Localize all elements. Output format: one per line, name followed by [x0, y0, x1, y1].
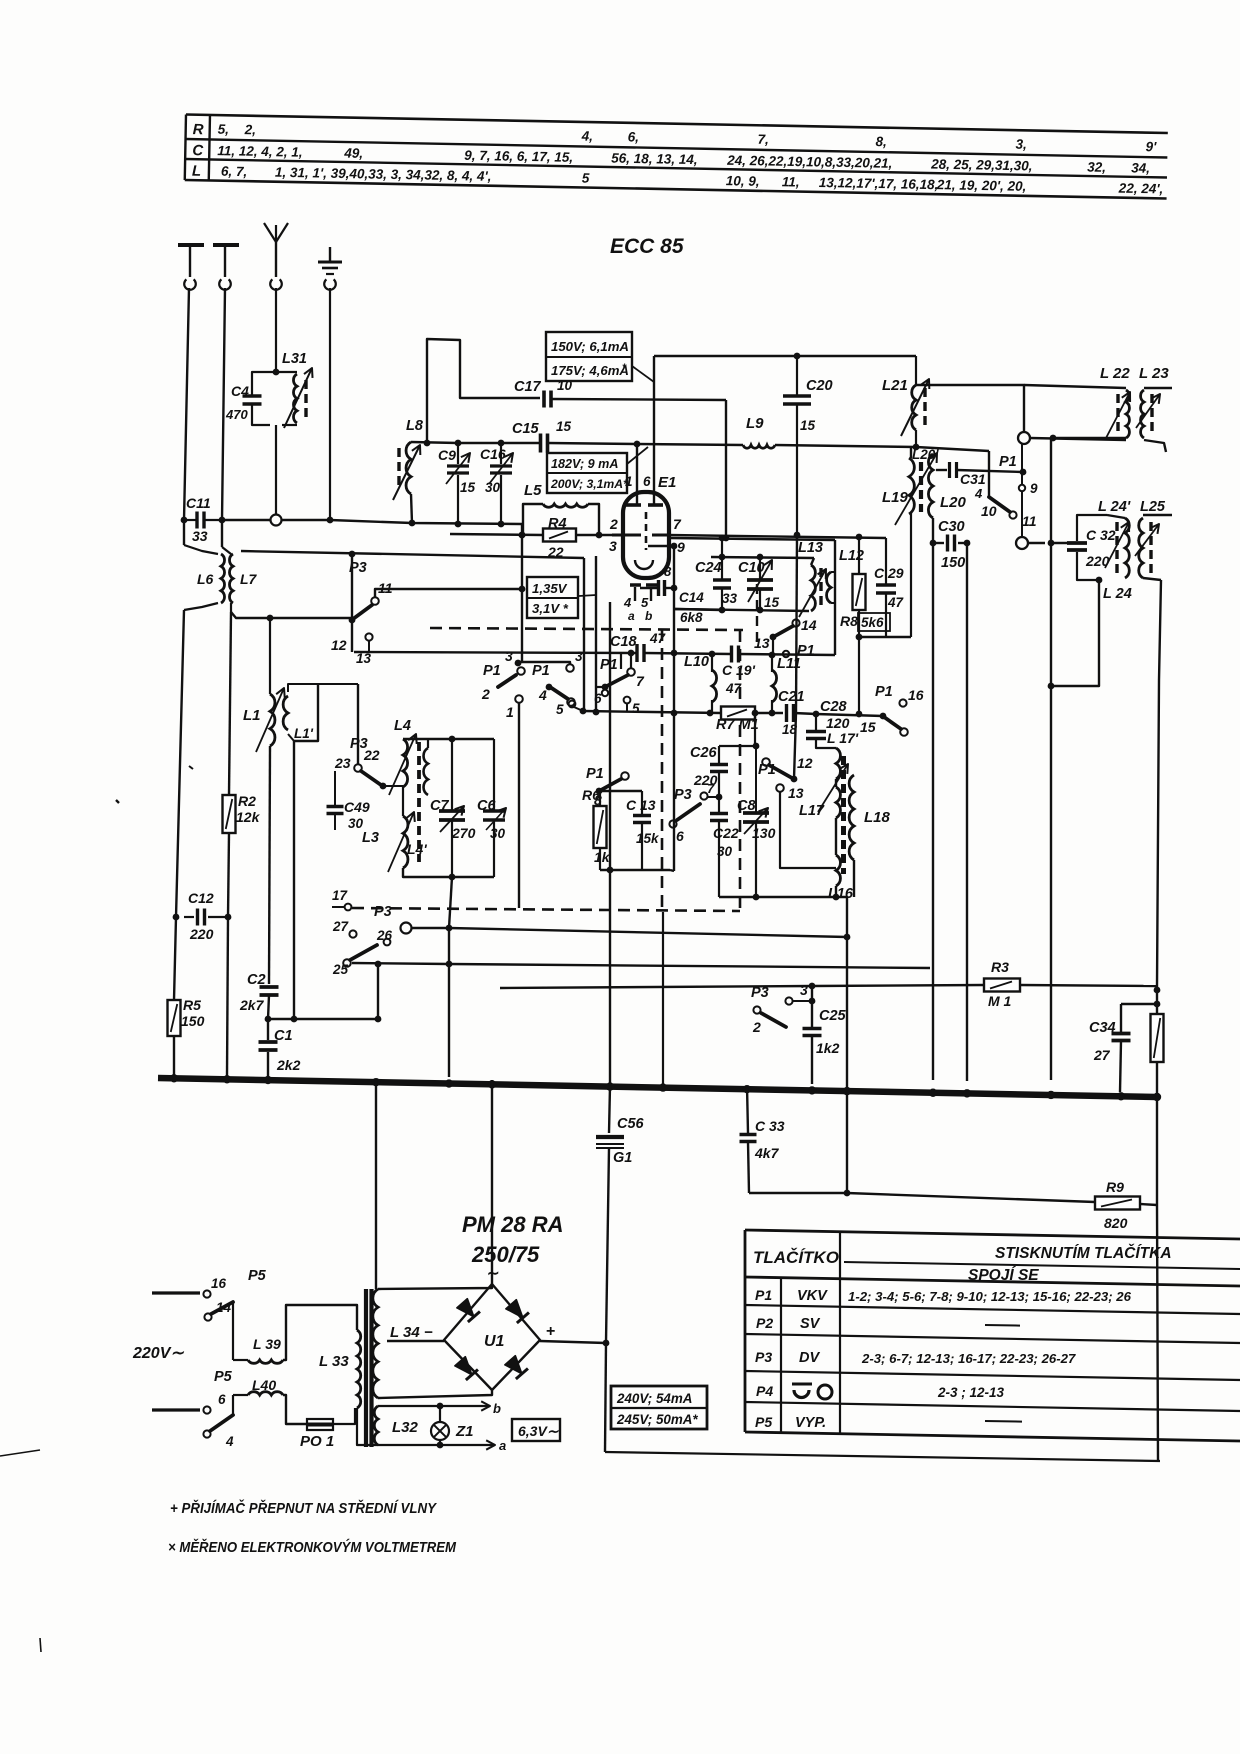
svg-text:C25: C25 — [819, 1008, 847, 1024]
svg-text:SPOJÍ SE: SPOJÍ SE — [968, 1267, 1039, 1284]
svg-text:C: C — [192, 142, 204, 159]
svg-text:M 1: M 1 — [988, 993, 1012, 1009]
svg-text:a: a — [628, 609, 635, 623]
svg-text:P5: P5 — [755, 1414, 772, 1430]
wire main top rail — [222, 519, 270, 521]
svg-text:C20: C20 — [806, 378, 833, 394]
svg-text:C8: C8 — [737, 798, 756, 814]
transformer L24'/L25 — [1125, 518, 1129, 578]
tube E1 ECC85 envelope — [623, 492, 669, 578]
svg-text:8,: 8, — [875, 134, 887, 149]
svg-text:14: 14 — [801, 617, 817, 633]
wire x=378 riser — [377, 964, 379, 1019]
wire cathode line y=609 to C24 line — [674, 609, 722, 610]
inductor L8 (tuned) — [411, 494, 412, 523]
wire R8/C29 bottom — [859, 636, 911, 638]
wire y=447 line to P1 corner — [916, 447, 989, 451]
bridge diodes — [457, 1299, 474, 1317]
capacitor C11 — [184, 519, 196, 521]
svg-text:P3: P3 — [751, 985, 769, 1001]
svg-text:L19: L19 — [882, 489, 909, 506]
capacitor C17 10 and link — [427, 339, 540, 443]
trimmer C16 30 — [500, 443, 502, 464]
wire L34 bottom to bridge — [378, 1390, 492, 1398]
svg-text:C 33: C 33 — [755, 1118, 785, 1134]
svg-text:L9: L9 — [746, 415, 764, 432]
svg-text:R3: R3 — [991, 959, 1009, 975]
capacitor C2 2k7 — [269, 746, 270, 984]
capacitor C49 30 — [334, 771, 336, 806]
svg-text:L4: L4 — [394, 718, 411, 734]
svg-text:5,: 5, — [218, 122, 230, 137]
svg-text:VYP.: VYP. — [795, 1415, 826, 1431]
wire bus to bridge apex — [491, 1080, 493, 1284]
capacitor C22 30 — [718, 797, 720, 813]
svg-text:*: * — [622, 362, 627, 374]
wire C20 down long — [796, 404, 798, 535]
wire L22 bottom — [1053, 437, 1126, 439]
resistor R2 12k — [223, 795, 236, 833]
wire C30 legs to bus — [932, 543, 934, 1080]
svg-text:P1: P1 — [532, 663, 550, 679]
wire x=610 long riser — [609, 602, 611, 1086]
svg-text:7: 7 — [636, 673, 645, 689]
resistor R10 (right edge) — [1156, 986, 1158, 1014]
svg-text:C30: C30 — [938, 519, 965, 535]
svg-text:C18: C18 — [610, 634, 638, 650]
wire bus to L34 top — [375, 1080, 377, 1289]
svg-text:2: 2 — [752, 1019, 761, 1035]
wire grid pin 2 into tube — [612, 534, 641, 537]
svg-text:U1: U1 — [484, 1333, 505, 1350]
wire antenna to L31 — [275, 288, 277, 372]
svg-text:PO 1: PO 1 — [300, 1433, 334, 1450]
svg-text:7,: 7, — [757, 132, 769, 147]
svg-text:15k: 15k — [636, 831, 660, 846]
svg-text:L 24: L 24 — [1103, 586, 1132, 602]
svg-text:PM 28 RA: PM 28 RA — [462, 1212, 563, 1237]
wire x=450 to bus — [449, 877, 452, 928]
svg-text:C15: C15 — [512, 421, 540, 437]
pin 9 wire — [648, 545, 674, 547]
svg-text:14: 14 — [216, 1300, 232, 1315]
dashed box vertical x=740 — [739, 630, 742, 910]
svg-text:7: 7 — [707, 781, 715, 796]
capacitor C31 (series) — [936, 469, 947, 471]
dashed stub near C14 — [756, 584, 758, 648]
svg-text:150: 150 — [181, 1013, 205, 1029]
svg-text:P5: P5 — [248, 1268, 267, 1284]
svg-text:+ PŘIJÍMAČ PŘEPNUT NA STŘEDNÍ: + PŘIJÍMAČ PŘEPNUT NA STŘEDNÍ VLNY — [170, 1499, 438, 1517]
dashed box top y=629 — [430, 628, 743, 630]
component value cross-reference table (R/C/L rows) — [185, 114, 1168, 198]
capacitor C18 47 (series) — [635, 644, 638, 662]
svg-text:13: 13 — [788, 785, 804, 801]
svg-text:P3: P3 — [674, 787, 692, 803]
svg-text:1: 1 — [506, 704, 514, 720]
wire top link y=385 — [916, 385, 1024, 432]
wire L24 tap — [1096, 577, 1103, 584]
svg-text:P1: P1 — [755, 1287, 772, 1303]
svg-text:1k2: 1k2 — [816, 1040, 840, 1056]
inductor L21 (tuned) — [915, 356, 917, 385]
connector circle node — [401, 923, 412, 934]
svg-text:L 23: L 23 — [1139, 365, 1169, 382]
junction y=1019 wire — [268, 995, 269, 1019]
svg-text:R9: R9 — [1106, 1179, 1124, 1195]
svg-text:C2: C2 — [247, 972, 266, 988]
svg-text:11, 12, 4, 2, 1,: 11, 12, 4, 2, 1, — [217, 143, 303, 160]
wire control line y=653 — [354, 652, 636, 653]
wire node y=791 — [599, 790, 642, 792]
svg-text:L25: L25 — [1140, 499, 1166, 515]
svg-text:G1: G1 — [613, 1150, 632, 1166]
resistor R3 M1 — [984, 979, 1020, 992]
wire circle5 stub — [574, 707, 583, 711]
wire B+ down to distribution line — [605, 1343, 606, 1452]
svg-text:5: 5 — [556, 702, 564, 717]
svg-text:22, 24',: 22, 24', — [1118, 181, 1164, 197]
trimmer C10 15 — [759, 557, 761, 580]
svg-text:R: R — [193, 121, 204, 138]
svg-text:200V; 3,1mA*: 200V; 3,1mA* — [550, 477, 629, 491]
svg-text:8: 8 — [664, 564, 672, 579]
wire R6/C13 bottom to x=674 — [670, 870, 674, 871]
capacitor C25 1k2 — [811, 986, 813, 1028]
svg-text:L32: L32 — [392, 1419, 419, 1436]
contact 1 below — [515, 695, 523, 703]
inductor L18 — [849, 775, 854, 860]
svg-text:27: 27 — [1093, 1047, 1111, 1063]
svg-text:16: 16 — [908, 687, 924, 703]
wire y=543 to C32 — [1028, 542, 1045, 544]
svg-text:30: 30 — [717, 844, 733, 859]
svg-text:15: 15 — [556, 419, 572, 434]
svg-text:182V; 9 mA: 182V; 9 mA — [551, 457, 618, 471]
svg-text:3: 3 — [505, 648, 513, 664]
svg-text:5: 5 — [582, 170, 590, 185]
svg-text:25: 25 — [332, 962, 349, 977]
svg-text:15: 15 — [764, 595, 780, 610]
capacitor C6 30 (trimmer) — [493, 739, 495, 811]
wire L34 to bridge ~ top — [378, 1284, 492, 1289]
svg-text:9': 9' — [1145, 139, 1157, 154]
svg-text:VKV: VKV — [797, 1288, 828, 1304]
svg-text:L 22: L 22 — [1100, 365, 1130, 382]
inductor L10 — [711, 654, 713, 672]
svg-text:C34: C34 — [1089, 1020, 1116, 1036]
svg-text:L10: L10 — [684, 654, 709, 670]
svg-text:33: 33 — [192, 528, 208, 544]
wire riser to C24 line — [721, 538, 723, 557]
inductor L4/L3 assembly with core — [403, 739, 408, 787]
wire B+ output — [540, 1341, 606, 1343]
inductor L17'/L17/L16 column — [836, 748, 840, 779]
winding L32 heater — [374, 1406, 378, 1445]
svg-text:220: 220 — [189, 926, 214, 942]
svg-text:15: 15 — [860, 719, 876, 735]
svg-text:R5: R5 — [183, 997, 201, 1013]
capacitor C30 150 — [930, 540, 937, 547]
svg-text:C10: C10 — [738, 560, 765, 576]
wire contact riser x=584 from H5 — [583, 558, 585, 711]
svg-text:24, 26,22,19,10,8,33,20,21,: 24, 26,22,19,10,8,33,20,21, — [726, 153, 892, 171]
svg-text:6,3V∼: 6,3V∼ — [518, 1423, 560, 1439]
svg-text:L20': L20' — [912, 447, 939, 462]
tube grid dashed — [645, 512, 648, 550]
svg-text:4,: 4, — [581, 128, 594, 143]
svg-text:L1': L1' — [294, 726, 314, 741]
wire R6/C13 bottom y=870 — [600, 869, 670, 871]
svg-text:15: 15 — [460, 480, 476, 495]
wire L23 leads — [1144, 387, 1172, 389]
svg-text:L6: L6 — [197, 571, 214, 587]
svg-text:P1: P1 — [758, 762, 776, 778]
wire antenna-2 down — [222, 288, 225, 547]
wire H5 long line from L7 — [241, 551, 584, 558]
svg-text:30: 30 — [348, 816, 364, 831]
svg-text:L 39: L 39 — [253, 1336, 281, 1352]
svg-text:4: 4 — [974, 486, 983, 501]
inductor L11 bottom link — [771, 700, 773, 713]
svg-text:12k: 12k — [236, 809, 261, 825]
dashed box vertical x=662 — [661, 629, 664, 910]
choke L40 — [233, 1394, 248, 1396]
svg-text:L8: L8 — [406, 418, 424, 434]
capacitor C20 15 — [796, 356, 798, 396]
resistor R5 150 — [168, 1000, 181, 1036]
svg-text:56, 18, 13, 14,: 56, 18, 13, 14, — [611, 151, 698, 168]
wire pin7 line y=535 — [668, 535, 886, 538]
svg-text:C7: C7 — [430, 798, 449, 814]
measurement box 150V/175V — [546, 332, 632, 381]
connector circle upper — [1018, 432, 1030, 444]
wire C24/C10 top — [711, 557, 814, 558]
svg-text:175V; 4,6mA: 175V; 4,6mA — [551, 363, 629, 378]
svg-text:P4: P4 — [756, 1383, 773, 1399]
switch P5 lower (6/4) — [152, 1408, 200, 1411]
svg-text:6, 7,: 6, 7, — [221, 164, 248, 179]
capacitor C14 6k8 — [640, 587, 657, 589]
capacitor C1 2k2 — [267, 1019, 269, 1040]
svg-text:× MĚŘENO ELEKTRONKOVÝM VOLTMET: × MĚŘENO ELEKTRONKOVÝM VOLTMETREM — [168, 1538, 456, 1556]
svg-text:L31: L31 — [282, 351, 307, 367]
svg-text:1,35V: 1,35V — [532, 581, 568, 596]
svg-text:C49: C49 — [344, 799, 370, 815]
svg-text:b: b — [493, 1401, 501, 1416]
phono input jack symbol — [178, 243, 204, 247]
svg-text:3: 3 — [800, 982, 808, 998]
heater output arrows a/b — [440, 1405, 490, 1407]
choke L39 — [233, 1359, 248, 1361]
capacitor C32 220 — [1067, 541, 1087, 545]
svg-text:C 29: C 29 — [874, 565, 904, 581]
capacitor C4 470 (on box left edge) — [243, 394, 262, 397]
svg-text:P3: P3 — [755, 1349, 772, 1365]
capacitor C56 G1 (electrolytic) — [609, 1086, 610, 1133]
svg-text:820: 820 — [1104, 1215, 1128, 1231]
svg-text:L1: L1 — [243, 707, 261, 724]
svg-text:C4: C4 — [231, 383, 249, 399]
svg-text:12: 12 — [797, 755, 813, 771]
svg-text:1-2; 3-4; 5-6; 7-8; 9-10; 12-1: 1-2; 3-4; 5-6; 7-8; 9-10; 12-13; 15-16; … — [848, 1289, 1132, 1304]
winding L33 primary — [357, 1330, 361, 1408]
svg-text:L16: L16 — [828, 886, 854, 902]
svg-text:130: 130 — [752, 825, 776, 841]
measurement box 182V/200V — [547, 453, 627, 493]
svg-text:150V; 6,1mA: 150V; 6,1mA — [551, 339, 629, 354]
wire C33 return y=1193 — [749, 1192, 847, 1194]
capacitor C19' 47 (series) — [730, 646, 733, 663]
svg-text:470: 470 — [225, 407, 248, 422]
svg-text:4: 4 — [538, 687, 547, 703]
svg-text:P1: P1 — [586, 766, 604, 782]
svg-text:+: + — [546, 1323, 555, 1340]
coil L31 — [293, 374, 297, 423]
wire L7 bottom to P3 common — [231, 612, 352, 618]
svg-text:Z1: Z1 — [455, 1423, 474, 1440]
svg-text:240V; 54mA: 240V; 54mA — [616, 1391, 692, 1406]
capacitor C26 220 — [719, 713, 755, 746]
svg-text:220V∼: 220V∼ — [132, 1345, 184, 1362]
transformer L6/L7 — [184, 545, 218, 554]
svg-text:L5: L5 — [524, 482, 542, 499]
wire C24/C10 bottom y=610 — [674, 609, 809, 611]
phono terminal cups — [184, 279, 196, 289]
svg-text:R2: R2 — [238, 793, 256, 809]
wire V1 lower — [174, 610, 184, 1000]
dashed box bottom y=910 — [352, 908, 740, 911]
capacitor C15 15 (series) — [539, 434, 543, 453]
resistor R4 22 — [450, 534, 543, 535]
svg-text:C9: C9 — [438, 447, 456, 463]
svg-text:32,: 32, — [1087, 159, 1106, 174]
inductor L13 — [811, 558, 814, 565]
wire y=438 to L22 — [1030, 438, 1126, 440]
svg-text:C 13: C 13 — [626, 797, 656, 813]
svg-text:L3: L3 — [362, 830, 379, 846]
antenna symbol — [264, 223, 276, 242]
svg-text:L18: L18 — [864, 809, 891, 826]
svg-text:11,: 11, — [782, 174, 800, 189]
svg-text:10: 10 — [981, 503, 997, 519]
svg-text:7: 7 — [673, 516, 682, 532]
svg-text:C11: C11 — [186, 495, 211, 511]
wire x=1051 long — [1050, 438, 1052, 1080]
svg-text:C 32: C 32 — [1086, 527, 1116, 543]
svg-text:22: 22 — [363, 747, 380, 763]
svg-text:C26: C26 — [690, 745, 718, 761]
wire contact3 link — [518, 662, 570, 664]
svg-text:4: 4 — [225, 1434, 234, 1449]
svg-text:23: 23 — [334, 755, 351, 771]
svg-text:C56: C56 — [617, 1116, 645, 1132]
svg-text:2k7: 2k7 — [239, 997, 265, 1013]
svg-text:1k: 1k — [594, 849, 611, 865]
svg-text:2-3 ; 12-13: 2-3 ; 12-13 — [937, 1385, 1005, 1400]
svg-text:6: 6 — [218, 1392, 226, 1407]
wire x=847 drop to bus and C33 return — [846, 897, 848, 1086]
svg-text:150: 150 — [941, 555, 965, 571]
svg-text:120: 120 — [826, 715, 850, 731]
wire module bottom y=877 — [403, 868, 494, 877]
fuse PO1 — [307, 1419, 333, 1430]
svg-text:C16: C16 — [480, 446, 506, 462]
svg-text:L 17': L 17' — [827, 730, 859, 746]
svg-text:3: 3 — [609, 538, 617, 554]
wire L13 box right edge down — [834, 540, 836, 655]
svg-text:C24: C24 — [695, 560, 722, 576]
svg-text:R7 M1: R7 M1 — [716, 717, 759, 733]
svg-text:DV: DV — [799, 1350, 820, 1366]
svg-text:3: 3 — [575, 649, 583, 664]
wire V2 lower (R2/C12 leg) — [229, 612, 231, 795]
table TLACITKO frame — [745, 1230, 1240, 1441]
inductor L19/L20/L20' assembly — [910, 447, 912, 458]
capacitor C7 270 (variable) — [403, 738, 494, 740]
svg-text:2,: 2, — [244, 122, 257, 137]
switch P1 contacts 13/14 — [770, 634, 777, 641]
inductor L1' secondary — [283, 696, 288, 730]
svg-text:2-3; 6-7; 12-13; 16-17; 22-23;: 2-3; 6-7; 12-13; 16-17; 22-23; 26-27 — [861, 1351, 1076, 1366]
winding L34 secondary — [373, 1289, 378, 1398]
wire L34 center tap — [387, 1340, 444, 1342]
wire right edge below bus — [1157, 1097, 1158, 1460]
svg-text:9: 9 — [1030, 481, 1038, 496]
wire rail corner down to P1 contact 3 — [521, 524, 523, 663]
svg-text:6: 6 — [643, 474, 651, 489]
svg-text:28, 25, 29,31,30,: 28, 25, 29,31,30, — [930, 157, 1033, 174]
svg-text:C31: C31 — [960, 471, 986, 487]
svg-text:5: 5 — [632, 701, 640, 716]
wire L31 bottom to terminal — [275, 425, 277, 514]
svg-text:C14: C14 — [679, 590, 704, 605]
capacitor C34 27 — [1121, 1003, 1157, 1005]
svg-text:6k8: 6k8 — [680, 610, 703, 625]
wire bottom y=897 — [719, 896, 847, 898]
wire long LH2 y=963-968 — [352, 963, 930, 968]
wire C28 to L17' — [816, 739, 836, 748]
capacitor C8 130 (variable) — [755, 746, 757, 813]
capacitor C33 4k7 — [747, 1086, 748, 1133]
tube grid pin 7 bar and wire right — [652, 534, 668, 537]
capacitor C13 15k — [641, 791, 643, 815]
svg-text:2: 2 — [481, 686, 490, 702]
svg-text:C21: C21 — [778, 689, 805, 705]
wire contact11 jumper to x=522 — [375, 589, 522, 597]
switch P5 upper (16/14) — [152, 1291, 200, 1294]
tube heater pins 4,5 bars — [630, 583, 641, 587]
svg-text:30: 30 — [490, 826, 506, 841]
wire x=796 down from C20 — [796, 535, 797, 713]
inductor L10 bottom link — [711, 700, 713, 713]
svg-text:3,1V *: 3,1V * — [532, 601, 569, 616]
svg-text:270: 270 — [451, 825, 476, 841]
inductor L5 — [523, 504, 543, 535]
svg-text:C6: C6 — [477, 798, 496, 814]
svg-text:L13: L13 — [798, 540, 823, 556]
svg-text:C1: C1 — [274, 1028, 293, 1044]
tube cathode cup — [635, 560, 653, 569]
svg-text:L 34 −: L 34 − — [390, 1324, 433, 1341]
wire L20 bottom / L19 bottom — [932, 518, 934, 543]
svg-text:13,12,17',17, 16,18,: 13,12,17',17, 16,18, — [819, 175, 939, 192]
svg-text:R8: R8 — [840, 613, 858, 629]
svg-text:b: b — [645, 609, 652, 623]
svg-text:5: 5 — [641, 595, 649, 610]
svg-text:33: 33 — [722, 591, 738, 606]
svg-text:R6: R6 — [582, 787, 600, 803]
